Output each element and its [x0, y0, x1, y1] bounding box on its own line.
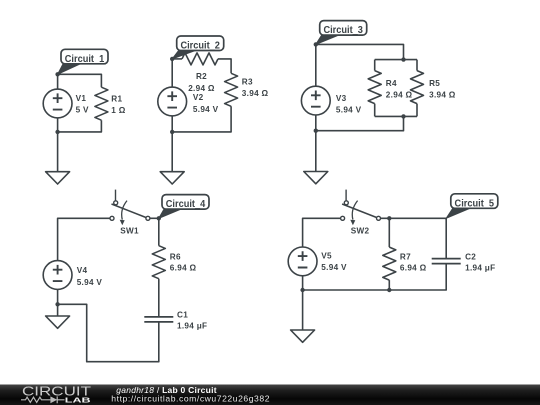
svg-text:LAB: LAB — [65, 395, 92, 404]
voltage source V4 — [43, 261, 72, 290]
wire switch SW1 to node — [150, 217, 159, 219]
wire V1 top lead — [57, 74, 59, 89]
wire node to R7 — [388, 218, 390, 247]
wire R5 leads — [416, 60, 418, 117]
svg-text:C1: C1 — [177, 311, 188, 320]
wire C2 top lead — [445, 218, 447, 258]
wire bottom rail circuit 3 — [316, 116, 404, 130]
junction node circuit 3 parallel top — [401, 57, 405, 61]
svg-text:1.94 μF: 1.94 μF — [177, 322, 207, 331]
svg-text:V1: V1 — [76, 94, 87, 103]
wire switch SW2 output rail — [381, 217, 447, 219]
capacitor C1 — [144, 317, 173, 322]
svg-text:5.94 V: 5.94 V — [321, 263, 347, 272]
svg-text:R3: R3 — [242, 77, 253, 86]
svg-text:1.94 μF: 1.94 μF — [465, 264, 495, 273]
node Circuit_4 flag — [159, 208, 183, 218]
ground circuit 5 — [291, 330, 315, 342]
wire V5 top to switch SW2 — [303, 218, 341, 247]
svg-text:R1: R1 — [111, 94, 122, 103]
svg-text:5.94 V: 5.94 V — [336, 106, 362, 115]
capacitor C2 — [432, 259, 461, 264]
node Circuit_5 flag — [446, 208, 472, 219]
node Circuit_1 flag — [58, 63, 82, 74]
junction node circuit 4 bottom — [55, 302, 59, 306]
junction node circuit 1 top — [55, 72, 59, 76]
wire V1 bottom lead — [57, 118, 59, 132]
wire ground stub circuit 3 — [315, 131, 317, 172]
svg-text:5.94 V: 5.94 V — [77, 278, 103, 287]
switch SW2 — [345, 190, 347, 201]
wire V3 bottom lead — [315, 115, 317, 131]
svg-text:V5: V5 — [321, 251, 332, 260]
wire C1 bottom rail circuit 4 — [58, 304, 159, 361]
resistor R2 — [182, 53, 218, 65]
resistor R5 — [411, 71, 424, 104]
svg-text:C2: C2 — [465, 252, 476, 261]
node Circuit_3 flag — [316, 34, 341, 44]
junction node circuit 5 rail bottom R7 — [387, 288, 391, 292]
svg-text:R4: R4 — [386, 79, 397, 88]
svg-text:R6: R6 — [170, 252, 181, 261]
resistor R1 — [95, 87, 108, 120]
wire top rail circuit 3 — [316, 44, 404, 59]
wire V4 bottom lead — [57, 289, 59, 304]
svg-text:Circuit_5: Circuit_5 — [455, 198, 495, 209]
junction node circuit 2 top — [170, 57, 174, 61]
svg-text:Circuit_4: Circuit_4 — [166, 199, 206, 210]
wire parallel top rail circuit 3 — [375, 59, 417, 61]
wire R6 to C1 — [158, 279, 160, 317]
junction node circuit 1 bottom — [55, 130, 59, 134]
resistor R6 — [152, 246, 165, 279]
svg-text:5 V: 5 V — [76, 105, 89, 114]
svg-text:V2: V2 — [193, 93, 204, 102]
wire ground stub circuit 2 — [171, 132, 173, 172]
svg-text:5.94 V: 5.94 V — [193, 105, 219, 114]
svg-text:6.94 Ω: 6.94 Ω — [170, 264, 197, 273]
junction node circuit 3 top left — [314, 42, 318, 46]
wire top rail circuit 1 — [58, 74, 102, 87]
wire R3 bottom lead to bottom rail circuit 2 — [172, 106, 231, 132]
wire ground stub circuit 5 — [302, 290, 304, 330]
CircuitLab logo resistor squiggle and diode — [21, 396, 65, 403]
svg-text:V3: V3 — [336, 94, 347, 103]
svg-text:R2: R2 — [196, 72, 207, 81]
resistor R3 — [225, 73, 238, 106]
wire V4 top to switch SW1 — [58, 218, 110, 260]
svg-text:Circuit_2: Circuit_2 — [180, 41, 220, 52]
svg-text:6.94 Ω: 6.94 Ω — [400, 264, 427, 273]
svg-text:http://circuitlab.com/cwu722u2: http://circuitlab.com/cwu722u26g382 — [111, 394, 270, 404]
svg-text:3.94 Ω: 3.94 Ω — [429, 90, 456, 99]
wire V2 bottom lead — [171, 116, 173, 132]
voltage source V3 — [301, 86, 330, 115]
svg-text:Circuit_3: Circuit_3 — [323, 25, 363, 36]
junction node circuit 3 parallel bottom — [401, 114, 405, 118]
voltage source V2 — [158, 87, 187, 116]
wire V5 bottom lead — [302, 276, 304, 290]
svg-text:Circuit_1: Circuit_1 — [65, 54, 105, 65]
voltage source V5 — [288, 247, 317, 276]
junction node circuit 5 switch output — [387, 216, 391, 220]
wire node to R6 — [158, 218, 160, 245]
wire R4 leads — [374, 60, 376, 117]
ground circuit 1 — [46, 172, 70, 184]
svg-text:V4: V4 — [77, 266, 88, 275]
wire ground stub circuit 1 — [57, 132, 59, 172]
wire C2 bottom to rail circuit 5 — [303, 264, 447, 290]
svg-text:R7: R7 — [400, 252, 411, 261]
ground circuit 2 — [160, 172, 184, 184]
svg-text:3.94 Ω: 3.94 Ω — [242, 89, 269, 98]
junction node circuit 2 bottom — [170, 130, 174, 134]
wire R7 bottom lead — [388, 280, 390, 290]
wire V2 top lead — [171, 59, 173, 87]
wire bottom rail circuit 1 — [58, 120, 102, 132]
switch SW1 — [115, 190, 117, 201]
resistor R4 — [368, 71, 381, 104]
svg-text:R5: R5 — [429, 79, 440, 88]
ground circuit 3 — [304, 172, 328, 184]
ground circuit 4 — [46, 316, 70, 328]
junction node circuit 5 bottom — [300, 288, 304, 292]
node Circuit_2 flag — [172, 50, 198, 59]
junction node circuit 4 switch output — [157, 216, 161, 220]
wire ground stub circuit 4 — [57, 304, 59, 316]
svg-text:SW1: SW1 — [120, 227, 139, 236]
wire V3 top lead — [315, 44, 317, 86]
junction node circuit 3 bottom left — [314, 129, 318, 133]
voltage source V1 — [43, 89, 72, 118]
wire R2 left lead — [172, 58, 182, 60]
wire R2 right lead and down to R3 — [218, 59, 231, 73]
svg-text:SW2: SW2 — [351, 227, 370, 236]
svg-text:2.94 Ω: 2.94 Ω — [386, 90, 413, 99]
svg-text:1 Ω: 1 Ω — [111, 106, 125, 115]
svg-text:2.94 Ω: 2.94 Ω — [188, 84, 215, 93]
wire parallel bottom rail circuit 3 — [375, 115, 417, 117]
resistor R7 — [383, 247, 396, 280]
